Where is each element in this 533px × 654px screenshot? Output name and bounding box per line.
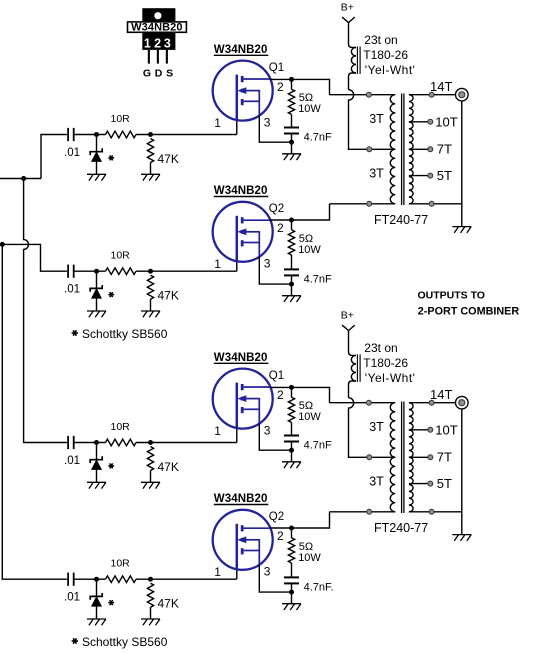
wire gate lead stage 4	[236, 569, 238, 579]
node 14T tap (lower)	[429, 400, 434, 405]
label * Schottky SB560 (lower)	[72, 635, 168, 649]
resistor 47K stage 2	[147, 275, 178, 311]
output connector (upper)	[456, 88, 469, 101]
svg-text:10W: 10W	[298, 244, 321, 256]
wire 10T tap (lower)	[409, 429, 430, 431]
node cap/diode junction stage 4	[94, 577, 99, 582]
svg-text:10R: 10R	[111, 250, 131, 262]
bus B wire (to stage 4)	[2, 244, 67, 579]
node source/cap junction stage 2	[289, 282, 294, 287]
svg-text:B+: B+	[341, 1, 354, 13]
wire 14T tap (upper)	[409, 94, 456, 96]
svg-text:1: 1	[214, 565, 221, 579]
ground (47K) stage 4	[141, 619, 160, 625]
svg-text:1: 1	[214, 116, 221, 130]
svg-text:OUTPUTS TO: OUTPUTS TO	[418, 290, 485, 302]
svg-text:.01: .01	[64, 592, 80, 604]
wire to ground stage 3	[291, 450, 293, 462]
transformer FT240-77 primary winding (upper)	[390, 95, 395, 204]
supply B+ (lower)	[341, 309, 355, 352]
ground (source RC) stage 4	[282, 604, 301, 610]
capacitor .01 stage 3	[64, 436, 80, 467]
node cap/diode junction stage 3	[94, 440, 99, 445]
wire source stage 2	[259, 257, 291, 284]
wire secondary bottom to ground line (upper)	[409, 203, 462, 205]
transistor Q2 W34NB20 stage 4	[213, 510, 273, 570]
node 47K junction stage 3	[148, 440, 153, 445]
transistor Q1 W34NB20 stage 1	[213, 61, 273, 121]
diode D1 Schottky (marked *) stage 1	[90, 135, 102, 175]
transformer FT240-77 primary winding (lower)	[390, 403, 395, 512]
output connector (lower)	[456, 396, 469, 409]
wire 5T tap (upper)	[409, 175, 430, 177]
svg-text:3: 3	[264, 565, 271, 579]
node drain stage 1	[289, 77, 294, 82]
node cap/diode junction stage 1	[94, 132, 99, 137]
wire cap to gate node stage 1	[75, 134, 106, 136]
svg-text:FT240-77: FT240-77	[374, 521, 428, 535]
wire 10R to 47K node stage 1	[136, 134, 237, 136]
wire connector ground line (lower)	[461, 409, 463, 535]
node cap/diode junction stage 2	[94, 269, 99, 274]
transistor Q1 W34NB20 stage 3	[213, 369, 273, 429]
wire 14T tap (lower)	[409, 402, 456, 404]
resistor 5ohm 10W stage 1	[288, 79, 321, 127]
bus A wire (input to stages 1,3) with hop over stage-2 feed	[24, 179, 67, 443]
package pin numbers 1 2 3	[144, 36, 171, 50]
wire choke to center tap with hop (lower)	[349, 398, 396, 458]
ground (source RC) stage 3	[282, 462, 301, 468]
ground (47K) stage 2	[141, 311, 160, 317]
svg-text:'Yel-Wht': 'Yel-Wht'	[365, 371, 416, 385]
node primary bottom (lower)	[367, 509, 372, 514]
label W34NB20 stage 3	[214, 352, 268, 364]
svg-text:3: 3	[264, 115, 271, 129]
resistor 5ohm 10W stage 2	[288, 220, 321, 269]
asterisk mark for diode stage 1	[108, 155, 114, 160]
svg-text:W34NB20: W34NB20	[214, 44, 268, 56]
capacitor 4.7nF stage 4	[284, 577, 334, 593]
wire 10R to 47K node stage 3	[136, 442, 237, 444]
svg-text:.01: .01	[64, 455, 80, 467]
svg-text:7T: 7T	[437, 450, 452, 465]
svg-text:10W: 10W	[298, 103, 321, 115]
svg-text:Q1: Q1	[269, 370, 284, 382]
node primary top (upper)	[366, 92, 371, 97]
wire primary top (upper)	[330, 94, 396, 96]
svg-text:Q2: Q2	[269, 511, 284, 523]
svg-text:Q1: Q1	[269, 62, 284, 74]
wire to ground stage 2	[291, 284, 293, 296]
choke 23t on T180-26 (lower)	[349, 352, 361, 398]
ground (output) (lower)	[452, 535, 471, 541]
diode D3 Schottky (marked *) stage 3	[90, 443, 102, 483]
node 7T tap (upper)	[428, 147, 433, 152]
asterisk mark for diode stage 4	[108, 600, 114, 605]
resistor 47K stage 3	[147, 447, 178, 483]
node 47K junction stage 4	[148, 577, 153, 582]
svg-text:3T: 3T	[369, 475, 384, 489]
ground (output) (upper)	[452, 227, 471, 233]
svg-text:5T: 5T	[437, 168, 452, 183]
node 47K junction stage 2	[148, 269, 153, 274]
node 14T tap (upper)	[429, 92, 434, 97]
label 23t on T180-26 'Yel-Wht' (upper)	[363, 33, 415, 77]
svg-text:W34NB20: W34NB20	[214, 185, 268, 197]
svg-text:Q2: Q2	[269, 203, 284, 215]
svg-text:2: 2	[277, 388, 284, 402]
svg-text:'Yel-Wht': 'Yel-Wht'	[365, 63, 416, 77]
svg-text:1: 1	[144, 36, 151, 50]
label 23t on T180-26 'Yel-Wht' (lower)	[363, 341, 415, 385]
wire 7T tap (lower)	[409, 456, 430, 458]
capacitor .01 stage 2	[64, 265, 80, 296]
ground (47K) stage 1	[141, 174, 160, 180]
wire drain to transformer stage 4	[292, 512, 330, 528]
diode D4 Schottky (marked *) stage 4	[90, 579, 102, 619]
node bus B junction	[0, 242, 5, 247]
transformer secondary winding (lower)	[409, 403, 413, 512]
package part label W34NB20	[128, 22, 187, 34]
wire gate lead stage 3	[236, 428, 238, 442]
wire gate lead stage 2	[236, 261, 238, 271]
node secondary bottom (lower)	[429, 509, 434, 514]
node 10T tap (upper)	[428, 119, 433, 124]
package pin names G D S	[143, 68, 173, 80]
wire gate lead stage 1	[236, 120, 238, 134]
label W34NB20 stage 4	[214, 493, 268, 505]
svg-text:3T: 3T	[369, 420, 384, 434]
wire drain to transformer stage 2	[292, 204, 330, 220]
svg-text:Schottky SB560: Schottky SB560	[82, 635, 168, 649]
svg-text:5T: 5T	[437, 476, 452, 491]
svg-text:10W: 10W	[298, 552, 321, 564]
node input split	[21, 176, 26, 181]
svg-text:14T: 14T	[430, 387, 452, 402]
capacitor 4.7nF stage 1	[284, 128, 332, 144]
svg-text:10R: 10R	[111, 421, 131, 433]
svg-text:47K: 47K	[158, 152, 179, 166]
node primary center tap (lower)	[367, 455, 372, 460]
resistor 5ohm 10W stage 4	[288, 528, 321, 577]
wire drain stage 3	[270, 386, 292, 388]
capacitor .01 stage 1	[64, 128, 80, 159]
ground (diode) stage 4	[87, 619, 106, 625]
capacitor 4.7nF stage 3	[284, 436, 332, 452]
wire drain stage 4	[270, 527, 292, 529]
asterisk mark for diode stage 2	[108, 292, 114, 297]
package leg pin 2	[157, 50, 159, 64]
wire cap to gate node stage 3	[75, 442, 106, 444]
wire source stage 4	[259, 565, 291, 592]
svg-text:3: 3	[164, 36, 171, 50]
wire drain to transformer stage 1	[292, 79, 330, 94]
label * Schottky SB560 (upper)	[72, 327, 168, 341]
wire primary top (lower)	[330, 402, 396, 404]
ground (source RC) stage 1	[282, 154, 301, 160]
svg-text:1: 1	[214, 257, 221, 271]
supply B+ (upper)	[341, 1, 355, 44]
resistor 10R stage 1	[106, 113, 137, 138]
svg-text:2: 2	[154, 36, 161, 50]
svg-text:47K: 47K	[158, 289, 179, 303]
wire primary bottom (upper)	[330, 203, 396, 205]
wire source stage 1	[259, 116, 291, 143]
svg-text:2: 2	[277, 80, 284, 94]
svg-text:.01: .01	[64, 284, 80, 296]
svg-text:23t on: 23t on	[364, 341, 397, 355]
wire to ground stage 4	[291, 592, 293, 604]
svg-text:3T: 3T	[369, 167, 384, 181]
resistor 47K stage 4	[147, 583, 178, 619]
resistor 10R stage 3	[106, 421, 137, 446]
package mounting hole	[154, 12, 161, 19]
wire stage-2 feed	[2, 244, 67, 271]
wire cap to gate node stage 2	[75, 270, 106, 272]
transformer core (upper)	[402, 94, 404, 206]
ground (source RC) stage 2	[282, 296, 301, 302]
label W34NB20 stage 1	[214, 44, 268, 56]
svg-text:3: 3	[264, 423, 271, 437]
node secondary bottom (upper)	[429, 201, 434, 206]
transformer core (lower)	[402, 402, 404, 514]
svg-text:B+: B+	[341, 309, 354, 321]
wire 10R to 47K node stage 4	[136, 578, 237, 580]
svg-text:2-PORT COMBINER: 2-PORT COMBINER	[418, 306, 520, 318]
asterisk mark for diode stage 3	[108, 463, 114, 468]
svg-text:47K: 47K	[158, 460, 179, 474]
svg-text:10R: 10R	[111, 558, 131, 570]
svg-text:.01: .01	[64, 147, 80, 159]
svg-text:23t on: 23t on	[364, 33, 397, 47]
svg-text:4.7nF: 4.7nF	[304, 273, 332, 285]
wire input riser to stage 1	[41, 135, 67, 179]
svg-text:14T: 14T	[430, 79, 452, 94]
capacitor 4.7nF stage 2	[284, 269, 332, 285]
svg-text:4.7nF: 4.7nF	[304, 440, 332, 452]
node primary center tap (upper)	[367, 147, 372, 152]
ground (47K) stage 3	[141, 482, 160, 488]
wire 10R to 47K node stage 2	[136, 270, 237, 272]
ground (diode) stage 1	[87, 174, 106, 180]
wire drain stage 2	[270, 219, 292, 221]
label W34NB20 stage 2	[214, 185, 268, 197]
wire connector ground line (upper)	[461, 101, 463, 227]
ground (diode) stage 3	[87, 482, 106, 488]
svg-text:10R: 10R	[111, 113, 131, 125]
wire choke to center tap with hop (upper)	[349, 90, 396, 150]
node primary bottom (upper)	[367, 201, 372, 206]
node 7T tap (lower)	[428, 455, 433, 460]
resistor 5ohm 10W stage 3	[288, 387, 321, 435]
capacitor .01 stage 4	[64, 573, 80, 604]
ground (diode) stage 2	[87, 311, 106, 317]
svg-text:S: S	[166, 68, 173, 80]
svg-text:T180-26: T180-26	[363, 48, 408, 62]
svg-text:4.7nF: 4.7nF	[304, 132, 332, 144]
node source/cap junction stage 4	[289, 590, 294, 595]
package leg pin 3	[166, 50, 168, 64]
svg-text:3: 3	[264, 257, 271, 271]
svg-text:2: 2	[277, 221, 284, 235]
node 5T tap (upper)	[428, 173, 433, 178]
svg-text:D: D	[155, 68, 163, 80]
wire 5T tap (lower)	[409, 483, 430, 485]
svg-text:10W: 10W	[298, 411, 321, 423]
node drain stage 4	[289, 526, 294, 531]
svg-text:FT240-77: FT240-77	[374, 213, 428, 227]
resistor 10R stage 2	[106, 250, 137, 275]
wire drain stage 1	[270, 78, 292, 80]
svg-text:W34NB20: W34NB20	[214, 352, 268, 364]
svg-text:4.7nF.: 4.7nF.	[304, 581, 334, 593]
resistor 47K stage 1	[147, 139, 178, 175]
svg-text:Schottky SB560: Schottky SB560	[82, 327, 168, 341]
wire primary bottom (lower)	[330, 511, 396, 513]
svg-text:10T: 10T	[435, 422, 457, 437]
svg-text:47K: 47K	[158, 597, 179, 611]
svg-text:1: 1	[214, 424, 221, 438]
svg-text:10T: 10T	[435, 114, 457, 129]
node source/cap junction stage 1	[289, 140, 294, 145]
package W34NB20 body (TO-220 outline)	[142, 8, 175, 50]
svg-text:W34NB20: W34NB20	[131, 22, 182, 34]
svg-text:W34NB20: W34NB20	[214, 493, 268, 505]
node drain stage 2	[289, 218, 294, 223]
wire main input	[0, 178, 41, 180]
transistor Q2 W34NB20 stage 2	[213, 202, 273, 262]
node primary top (lower)	[366, 400, 371, 405]
wire to ground stage 1	[291, 142, 293, 154]
diode D2 Schottky (marked *) stage 2	[90, 271, 102, 311]
node 5T tap (lower)	[428, 481, 433, 486]
wire drain to transformer stage 3	[292, 387, 330, 402]
wire source stage 3	[259, 424, 291, 451]
svg-text:3T: 3T	[369, 112, 384, 126]
wire 7T tap (upper)	[409, 148, 430, 150]
svg-text:G: G	[143, 68, 151, 80]
wire 10T tap (upper)	[409, 121, 430, 123]
svg-text:7T: 7T	[437, 142, 452, 157]
transformer secondary winding (upper)	[409, 95, 413, 204]
wire cap to gate node stage 4	[75, 578, 106, 580]
package leg pin 1	[148, 50, 150, 64]
svg-text:2: 2	[277, 529, 284, 543]
wire secondary bottom to ground line (lower)	[409, 511, 462, 513]
node 10T tap (lower)	[428, 427, 433, 432]
node 47K junction stage 1	[148, 132, 153, 137]
svg-text:T180-26: T180-26	[363, 356, 408, 370]
resistor 10R stage 4	[106, 558, 137, 583]
node drain stage 3	[289, 385, 294, 390]
choke 23t on T180-26 (upper)	[349, 44, 361, 90]
node source/cap junction stage 3	[289, 448, 294, 453]
